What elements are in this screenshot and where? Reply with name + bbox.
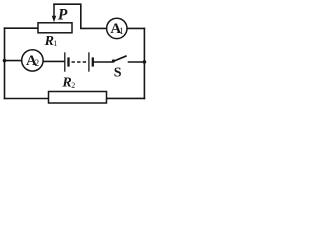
resistor R2 (49, 92, 107, 104)
switch S lever (113, 56, 127, 62)
ammeter A2 (22, 50, 43, 71)
resistor R1 (rheostat body) (38, 23, 72, 33)
svg-text:1: 1 (119, 26, 124, 36)
battery cell 2 long plate (88, 52, 90, 71)
wire: middle branch from left border to ammeter A2 (5, 60, 22, 62)
battery dashed link (72, 61, 87, 63)
wire: wiper bracket of rheostat (54, 4, 106, 28)
switch S pivot dot (112, 59, 115, 62)
svg-text:R: R (61, 76, 71, 91)
svg-text:2: 2 (71, 81, 75, 90)
wire: bottom segment right (107, 97, 145, 99)
ammeter A1 (107, 18, 127, 38)
wire: top-left segment to rheostat (5, 27, 39, 29)
wire: ammeter A2 to battery (43, 60, 64, 62)
battery cell 1 short plate (67, 57, 69, 66)
battery cell 2 short plate (92, 57, 94, 66)
node: junction on left border (3, 59, 7, 63)
svg-text:S: S (114, 65, 122, 80)
svg-text:1: 1 (53, 39, 57, 48)
node: junction on right border (143, 60, 147, 64)
svg-text:2: 2 (35, 58, 40, 68)
svg-text:P: P (58, 6, 68, 23)
wire: right border (143, 28, 145, 98)
wire: bottom segment left (5, 98, 49, 100)
rheostat wiper arrow P (52, 4, 56, 22)
battery cell 1 long plate (64, 52, 66, 71)
wire: A1 to top-right corner (127, 27, 144, 29)
wire: left border (4, 28, 6, 98)
wire: battery to switch pivot (94, 61, 112, 63)
wire: switch contact to right border (129, 61, 145, 63)
